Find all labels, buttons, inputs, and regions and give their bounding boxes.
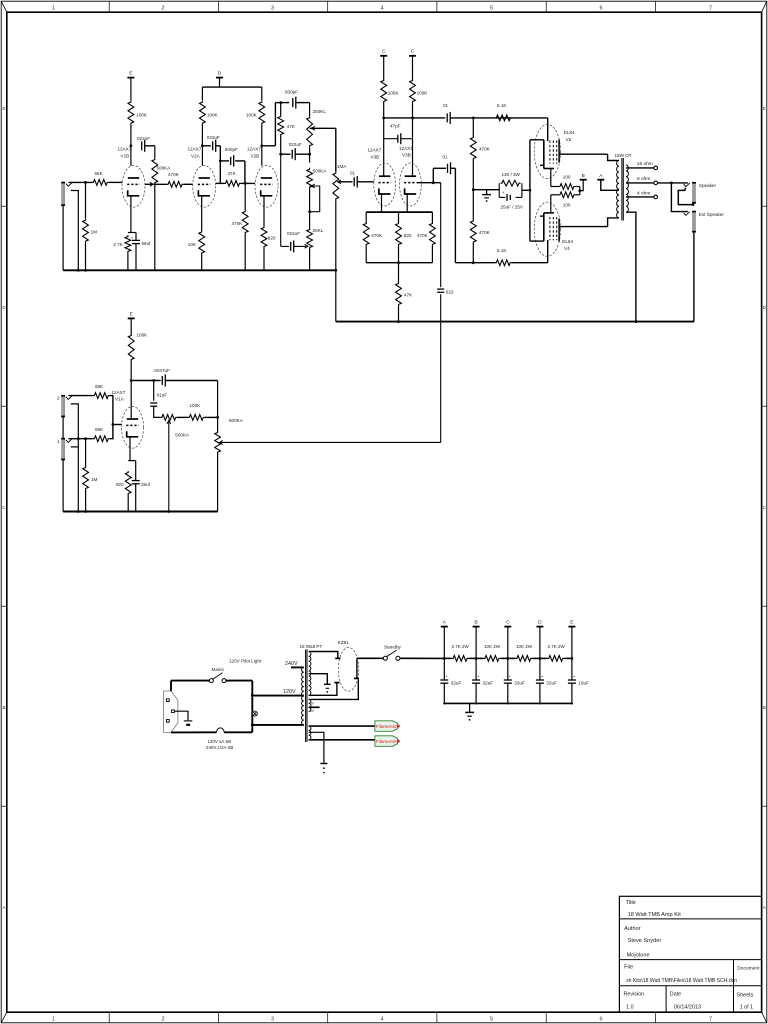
svg-text:5.1K: 5.1K bbox=[497, 103, 507, 108]
resistor 1M (ch1 input) bbox=[83, 219, 89, 243]
svg-text:100K: 100K bbox=[190, 403, 202, 408]
svg-text:820: 820 bbox=[116, 482, 124, 487]
svg-text:16uF: 16uF bbox=[578, 681, 589, 686]
capacitor .01 (lower EL84 coupling) bbox=[432, 168, 434, 182]
jack ring contact wire bbox=[71, 191, 79, 271]
svg-text:120V Pilot Light: 120V Pilot Light bbox=[229, 659, 262, 664]
wire down to 47K/500pF pair bbox=[219, 146, 221, 184]
svg-text:1MA: 1MA bbox=[337, 164, 347, 169]
ch2 volume wiper out bbox=[218, 442, 221, 444]
OT secondary winding bbox=[626, 165, 628, 212]
svg-text:C: C bbox=[411, 49, 415, 55]
ground symbol (bias reference) bbox=[473, 189, 499, 191]
V3A plate lead bbox=[383, 118, 385, 176]
svg-text:100K: 100K bbox=[388, 91, 400, 96]
wire bias to cathode bus bbox=[522, 189, 530, 191]
svg-text:V2B: V2B bbox=[251, 153, 260, 158]
resistor 100K (V2A plate load) bbox=[200, 101, 206, 125]
svg-text:D: D bbox=[538, 620, 542, 626]
svg-text:B: B bbox=[2, 705, 5, 710]
OT core bbox=[621, 158, 623, 221]
HT top to rectifier plate bbox=[309, 652, 338, 659]
svg-text:B: B bbox=[763, 705, 766, 710]
svg-text:Speaker: Speaker bbox=[699, 183, 717, 188]
ext speaker jack bbox=[684, 212, 690, 216]
svg-text:18W OT: 18W OT bbox=[615, 153, 632, 158]
svg-text:.0047uF: .0047uF bbox=[153, 368, 170, 373]
svg-text:3: 3 bbox=[271, 5, 274, 11]
svg-text:B: B bbox=[474, 620, 477, 626]
resistor 1M (ch2) bbox=[85, 439, 87, 466]
svg-text:100K: 100K bbox=[207, 113, 219, 118]
wire V1B grid row to 470K bbox=[145, 183, 167, 185]
svg-text:470K: 470K bbox=[232, 221, 244, 226]
svg-text:06/14/2013: 06/14/2013 bbox=[674, 1005, 701, 1011]
svg-text:130 / 3W: 130 / 3W bbox=[502, 172, 521, 177]
ground bus (preamp channel 1) bbox=[63, 269, 336, 271]
svg-text:V2A: V2A bbox=[191, 153, 201, 158]
svg-text:500pF: 500pF bbox=[225, 147, 238, 152]
wire V1A plate row bbox=[131, 380, 161, 382]
svg-text:Ext Speaker: Ext Speaker bbox=[699, 212, 724, 217]
resistor chain 470K (EL84 grid leaks, lower) bbox=[472, 190, 474, 220]
svg-text:2: 2 bbox=[57, 396, 60, 401]
svg-text:3: 3 bbox=[271, 1017, 274, 1023]
capacitor 022 (ch2 mix / V3B grid) bbox=[440, 183, 442, 288]
svg-text:470K: 470K bbox=[479, 230, 491, 235]
svg-text:D: D bbox=[218, 71, 222, 77]
svg-text:7: 7 bbox=[709, 5, 712, 11]
svg-text:12AX7: 12AX7 bbox=[112, 390, 126, 395]
resistor 100K (V1B plate load) bbox=[128, 101, 134, 125]
svg-text:68K: 68K bbox=[95, 171, 104, 176]
resistor 470K (PI tail right) bbox=[431, 212, 433, 222]
svg-text:1: 1 bbox=[57, 439, 60, 444]
svg-text:470K: 470K bbox=[417, 233, 429, 238]
svg-text:470K: 470K bbox=[479, 147, 491, 152]
potentiometer 500KA (ch2 tone horizontal) bbox=[160, 415, 177, 421]
mains neutral wire + fuse bbox=[171, 731, 217, 733]
svg-text:Sheets: Sheets bbox=[737, 992, 754, 998]
svg-text:Date: Date bbox=[670, 991, 681, 997]
svg-text:4 ohm: 4 ohm bbox=[637, 191, 650, 197]
V3B grid wire bbox=[417, 182, 441, 184]
potentiometer 500KA (ch2 volume) bbox=[217, 381, 219, 432]
svg-text:68K: 68K bbox=[95, 427, 104, 432]
svg-text:250KL: 250KL bbox=[313, 109, 327, 114]
jack2 tip wire + 68K bbox=[69, 395, 93, 397]
standby switch bbox=[357, 657, 383, 659]
svg-text:C: C bbox=[382, 49, 386, 55]
svg-text:E: E bbox=[2, 106, 5, 111]
mains live wire + switch bbox=[170, 681, 172, 691]
title block bbox=[619, 896, 761, 1012]
resistor 100K (V1A plate load) bbox=[128, 334, 134, 361]
resistor 100K (V3B plate) bbox=[410, 79, 416, 103]
svg-text:120V: 120V bbox=[283, 689, 296, 695]
wire to ext speaker jack bbox=[671, 183, 688, 212]
resistor 470K (PI tail left) bbox=[365, 212, 367, 222]
svg-text:V1B: V1B bbox=[121, 153, 130, 158]
svg-text:4: 4 bbox=[380, 5, 383, 11]
V1A cathode network 820 + 25uf bbox=[129, 437, 131, 461]
node B terminal (screen supply) bbox=[579, 187, 581, 195]
svg-text:100K: 100K bbox=[136, 113, 148, 118]
wire jack tip to grid bbox=[69, 181, 93, 183]
B+ rail bbox=[444, 657, 451, 659]
filaments flag 2 bbox=[375, 736, 398, 747]
svg-text:V3B: V3B bbox=[402, 153, 411, 158]
svg-text:240V 1/2A SB: 240V 1/2A SB bbox=[206, 745, 233, 750]
capacitor .01uF bbox=[153, 381, 155, 401]
HT center tap ground bbox=[309, 674, 328, 684]
svg-text:01: 01 bbox=[443, 103, 449, 108]
svg-text:12AX7: 12AX7 bbox=[118, 147, 132, 152]
wire to V1A grid bbox=[113, 424, 122, 426]
potentiometer 500KA (bass) bbox=[307, 168, 313, 189]
svg-text:120V 1A SB: 120V 1A SB bbox=[208, 739, 232, 744]
svg-text:sh Kits\18 Watt TMB\Files\18 W: sh Kits\18 Watt TMB\Files\18 Watt TMB SC… bbox=[626, 978, 737, 984]
primary bottom wire bbox=[252, 724, 303, 726]
mains earth bbox=[174, 711, 188, 720]
potentiometer 500KA (ch1 volume) bbox=[154, 146, 156, 158]
svg-text:V4: V4 bbox=[564, 246, 570, 251]
resistor 47K (tone slope) bbox=[280, 103, 282, 115]
svg-text:32uF: 32uF bbox=[514, 681, 525, 686]
svg-text:5: 5 bbox=[490, 5, 493, 11]
svg-text:12AX7: 12AX7 bbox=[188, 147, 202, 152]
svg-text:01: 01 bbox=[350, 171, 356, 176]
svg-text:10K 2W: 10K 2W bbox=[516, 644, 533, 649]
frame zone ticks left/right bbox=[1, 205, 7, 207]
svg-text:1: 1 bbox=[52, 5, 55, 11]
svg-text:500pF: 500pF bbox=[285, 90, 298, 95]
svg-text:6V: 6V bbox=[310, 702, 315, 706]
capacitor 16uF (node E filter) bbox=[568, 679, 576, 681]
svg-text:E: E bbox=[763, 106, 766, 111]
svg-text:2.7K: 2.7K bbox=[113, 242, 123, 247]
frame zone ticks top/bottom bbox=[108, 1, 110, 12]
120V tap wire bbox=[252, 695, 303, 697]
svg-text:Filaments: Filaments bbox=[376, 739, 397, 744]
svg-text:022uF: 022uF bbox=[137, 136, 150, 141]
speaker jack (main) bbox=[684, 183, 690, 187]
svg-text:Steve Snyder: Steve Snyder bbox=[628, 938, 662, 944]
frame corner diagonals bbox=[1, 1, 7, 12]
potentiometer 250KL (treble) bbox=[309, 103, 311, 116]
PI cathode bar bbox=[381, 194, 383, 212]
svg-text:V3B: V3B bbox=[371, 154, 380, 159]
svg-text:32uF: 32uF bbox=[483, 681, 494, 686]
svg-text:25KL: 25KL bbox=[313, 228, 324, 233]
svg-text:1: 1 bbox=[52, 1017, 55, 1023]
svg-text:Document: Document bbox=[737, 966, 760, 972]
capacitor 022uF (tone mid) bbox=[281, 153, 291, 155]
V2A cathode resistor 10K bbox=[201, 196, 203, 231]
resistor 100K (V3A plate) bbox=[381, 79, 387, 103]
svg-text:E: E bbox=[570, 620, 573, 626]
svg-text:820: 820 bbox=[268, 236, 276, 241]
svg-text:47K: 47K bbox=[287, 124, 296, 129]
svg-text:10K: 10K bbox=[188, 242, 197, 247]
EL84 cathode bus bbox=[529, 140, 531, 241]
resistor 68K (ch1 grid stopper) bbox=[92, 180, 109, 186]
capacitor .01 (PI input coupling) bbox=[338, 181, 353, 183]
svg-text:E: E bbox=[130, 312, 133, 318]
svg-text:2: 2 bbox=[161, 1017, 164, 1023]
PI tail bottom wire bbox=[366, 262, 432, 264]
V5 plate wire to OT bbox=[559, 153, 608, 155]
capacitor 32uF (node D filter) bbox=[536, 679, 544, 681]
svg-text:2: 2 bbox=[161, 5, 164, 11]
6.3V filament wires bbox=[309, 725, 375, 727]
svg-text:68K: 68K bbox=[95, 384, 104, 389]
capacitor 32uF (node C filter) bbox=[504, 679, 512, 681]
svg-text:16 ohm: 16 ohm bbox=[637, 161, 653, 167]
svg-text:100: 100 bbox=[563, 202, 571, 207]
speaker jack shunt loop bbox=[678, 188, 693, 205]
svg-text:A: A bbox=[763, 905, 766, 910]
speaker ground return bbox=[693, 233, 695, 322]
svg-text:01uF: 01uF bbox=[157, 393, 168, 398]
svg-text:12AX7: 12AX7 bbox=[368, 148, 382, 153]
svg-text:100K: 100K bbox=[246, 113, 258, 118]
D supply rail bbox=[202, 86, 261, 88]
svg-text:1M: 1M bbox=[91, 477, 98, 482]
svg-text:32uF: 32uF bbox=[451, 681, 462, 686]
channel 2 mixing wire bbox=[221, 441, 441, 443]
filter ground symbol bbox=[469, 703, 471, 711]
jack1 ring wire bbox=[71, 446, 79, 448]
svg-text:5.1K: 5.1K bbox=[497, 248, 507, 253]
svg-text:8 ohm: 8 ohm bbox=[637, 176, 650, 182]
V3B plate lead bbox=[412, 118, 414, 176]
svg-text:2.7K 2W: 2.7K 2W bbox=[452, 644, 470, 649]
svg-text:47K: 47K bbox=[404, 293, 413, 298]
svg-text:18 Watt TMB Amp Kit: 18 Watt TMB Amp Kit bbox=[628, 912, 682, 918]
svg-text:500KA: 500KA bbox=[313, 169, 328, 174]
svg-text:47K: 47K bbox=[228, 171, 237, 176]
ground bus (PI / output) bbox=[336, 321, 694, 323]
svg-text:022uF: 022uF bbox=[207, 135, 220, 140]
HT bottom to rectifier plate 2 bbox=[309, 683, 337, 695]
jack1 tip wire + 68K bbox=[69, 438, 93, 440]
svg-text:2.7K 2W: 2.7K 2W bbox=[548, 644, 566, 649]
resistor chain 470K (EL84 grid leaks, upper) bbox=[472, 118, 474, 136]
svg-text:Revision: Revision bbox=[624, 991, 645, 997]
svg-text:Title: Title bbox=[626, 900, 636, 906]
svg-text:25uF / 25V: 25uF / 25V bbox=[501, 205, 524, 210]
resistor 470K (V2B grid leak) bbox=[244, 183, 246, 210]
svg-text:C: C bbox=[506, 620, 510, 626]
svg-text:47pF: 47pF bbox=[390, 124, 401, 129]
svg-text:470K: 470K bbox=[371, 233, 383, 238]
V5 screen lead bbox=[550, 169, 552, 187]
svg-text:12AX7: 12AX7 bbox=[247, 147, 261, 152]
svg-text:4: 4 bbox=[380, 1017, 383, 1023]
svg-text:File: File bbox=[624, 965, 633, 971]
svg-text:100K: 100K bbox=[137, 333, 149, 338]
svg-text:500KA: 500KA bbox=[157, 166, 172, 171]
svg-text:Filaments: Filaments bbox=[376, 724, 397, 729]
svg-text:Mains: Mains bbox=[212, 667, 225, 672]
svg-text:Mojotone: Mojotone bbox=[627, 952, 650, 958]
jack2 ring wire bbox=[71, 404, 79, 512]
svg-text:022: 022 bbox=[446, 289, 454, 294]
resistor 100K (V2B plate load) bbox=[259, 101, 265, 125]
wire 68K to V1B grid bbox=[109, 181, 123, 183]
mains vertical to PT bbox=[251, 681, 253, 733]
svg-text:1M: 1M bbox=[91, 230, 98, 235]
ground bus (channel 2) bbox=[63, 511, 218, 513]
svg-text:01: 01 bbox=[443, 155, 449, 160]
V1B cathode network: 2.7K + 68uf bbox=[130, 196, 132, 233]
svg-text:12AX7: 12AX7 bbox=[399, 146, 413, 151]
filter ground bus bbox=[444, 702, 572, 704]
PI plate rail with .01 coupling cap bbox=[384, 117, 446, 119]
svg-text:68uf: 68uf bbox=[142, 241, 152, 246]
svg-text:022uF: 022uF bbox=[289, 142, 302, 147]
secondary return bbox=[626, 212, 636, 321]
V1A plate lead bbox=[130, 381, 132, 420]
V4 plate wire to OT bbox=[559, 226, 608, 228]
svg-text:EL84: EL84 bbox=[562, 239, 573, 244]
svg-text:470K: 470K bbox=[168, 172, 180, 177]
svg-text:18 Watt PT: 18 Watt PT bbox=[300, 644, 323, 649]
wire treble wiper to volume bbox=[310, 127, 336, 129]
capacitor 022uF (bass/mid) bbox=[280, 154, 282, 246]
svg-text:5: 5 bbox=[490, 1017, 493, 1023]
potentiometer 25KL (middle) bbox=[307, 228, 313, 249]
svg-text:EZ81: EZ81 bbox=[338, 640, 349, 645]
svg-text:E: E bbox=[129, 71, 132, 77]
svg-text:240V: 240V bbox=[285, 661, 298, 667]
svg-text:6: 6 bbox=[599, 1017, 602, 1023]
resistor 820 (PI tail) bbox=[398, 212, 400, 222]
svg-text:500KA: 500KA bbox=[175, 433, 190, 438]
V4 grid wire bbox=[547, 240, 549, 263]
svg-text:EL84: EL84 bbox=[564, 130, 575, 135]
svg-text:V5: V5 bbox=[566, 137, 572, 142]
svg-text:Standby: Standby bbox=[384, 645, 402, 650]
svg-text:1 of 1: 1 of 1 bbox=[740, 1005, 754, 1011]
svg-text:5V: 5V bbox=[310, 709, 315, 713]
svg-text:6: 6 bbox=[599, 5, 602, 11]
svg-text:V1A: V1A bbox=[115, 397, 125, 402]
svg-text:25uf: 25uf bbox=[141, 482, 151, 487]
svg-text:32uF: 32uF bbox=[546, 681, 557, 686]
svg-text:B: B bbox=[582, 173, 585, 179]
6.3V center tap ground bbox=[309, 732, 324, 763]
input jack J3 (channel 1) bbox=[62, 182, 65, 206]
wire 8 ohm to speaker jacks bbox=[658, 182, 688, 184]
svg-text:1.0: 1.0 bbox=[626, 1005, 634, 1011]
resistor 47K (PI tail to ground) bbox=[398, 263, 400, 282]
svg-text:022uF: 022uF bbox=[287, 231, 300, 236]
capacitor 32uF (node B filter) bbox=[472, 679, 480, 681]
svg-text:10K 2W: 10K 2W bbox=[484, 644, 501, 649]
mains plug bbox=[164, 691, 178, 732]
svg-text:500KA: 500KA bbox=[229, 418, 244, 423]
svg-text:100K: 100K bbox=[417, 91, 429, 96]
filaments flag 1 bbox=[375, 721, 398, 732]
V2B cathode resistor 820 bbox=[263, 196, 265, 226]
svg-text:Author: Author bbox=[624, 926, 641, 932]
rectifier heater wire bbox=[309, 680, 359, 700]
svg-text:100: 100 bbox=[563, 175, 571, 180]
wire V2B plate to tone stack bbox=[262, 145, 276, 147]
svg-text:820: 820 bbox=[404, 233, 412, 238]
svg-text:A: A bbox=[2, 905, 5, 910]
V5 grid wire bbox=[547, 118, 549, 141]
resistor 470K (ch1 mix) bbox=[167, 181, 184, 187]
svg-text:7: 7 bbox=[709, 1017, 712, 1023]
capacitor 32uF (node A filter) bbox=[440, 679, 448, 681]
